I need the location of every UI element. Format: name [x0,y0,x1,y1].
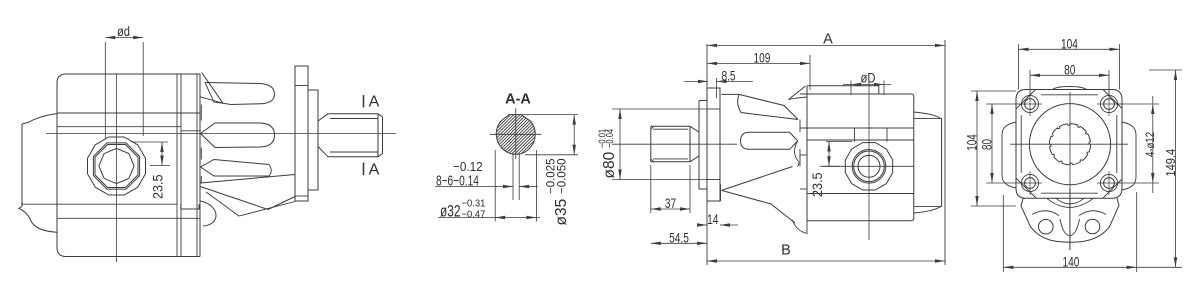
svg-text:104: 104 [1061,36,1078,52]
svg-text:140: 140 [1063,254,1080,270]
svg-text:8−6−0.14: 8−6−0.14 [436,173,479,189]
svg-text:23.5: 23.5 [150,175,166,199]
svg-text:4-ø12: 4-ø12 [1144,132,1157,157]
svg-text:8.5: 8.5 [721,68,735,84]
svg-text:−0.47: −0.47 [462,209,486,221]
svg-text:−0.12: −0.12 [453,159,483,174]
svg-text:A-A: A-A [505,92,531,108]
svg-text:104: 104 [964,134,980,151]
svg-text:54.5: 54.5 [669,230,689,246]
svg-text:ø35: ø35 [553,199,570,226]
svg-text:−0.31: −0.31 [462,198,486,210]
svg-text:23.5: 23.5 [809,173,825,197]
svg-text:37: 37 [665,196,677,212]
svg-text:ød: ød [117,24,130,39]
svg-text:80: 80 [1064,62,1076,78]
svg-text:ø32: ø32 [440,203,460,221]
svg-text:−0.04: −0.04 [604,129,615,148]
svg-text:ø80: ø80 [601,151,618,178]
svg-text:109: 109 [754,50,771,66]
svg-text:A: A [369,162,380,179]
svg-text:A: A [369,94,380,111]
svg-text:B: B [781,243,791,259]
svg-text:149.4: 149.4 [1163,149,1178,177]
svg-text:−0.050: −0.050 [557,159,569,195]
svg-text:øD: øD [861,70,876,85]
svg-text:80: 80 [979,139,995,150]
svg-text:A: A [823,32,833,48]
svg-text:14: 14 [707,212,719,228]
